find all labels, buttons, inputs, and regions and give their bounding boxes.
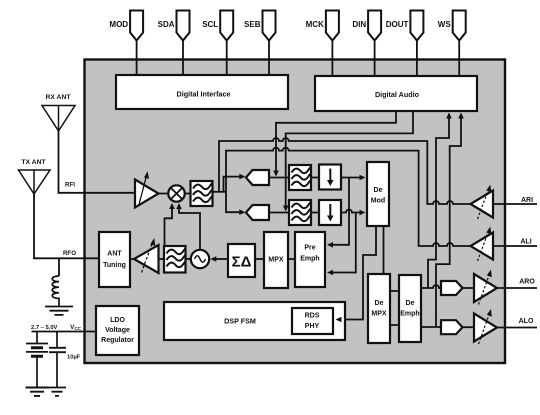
arrowhead into mixer (LO left) — [169, 203, 175, 209]
arrowhead into Digital Audio (2) — [458, 113, 464, 119]
wire: ADC2 to channel filter 2 — [269, 212, 289, 214]
arrowhead into ADC2 — [239, 209, 245, 215]
svg-text:ALI: ALI — [520, 239, 531, 246]
DAC right channel — [441, 281, 463, 295]
wire: TX ANT down to RFO — [34, 194, 99, 258]
arrowhead into RDS PHY — [336, 317, 342, 323]
wire: pin MOD lead into chip — [136, 39, 138, 76]
amplifier ALO output — [474, 314, 497, 342]
wire: ADC1 to channel filter 1 — [269, 177, 289, 179]
wire: decimator1 to demodulator — [341, 177, 364, 179]
amplifier ALI input — [471, 233, 494, 260]
svg-text:MOD: MOD — [109, 20, 128, 29]
filter (RF low-pass) — [191, 181, 213, 206]
svg-text:ARO: ARO — [519, 279, 535, 286]
wire: De MPX to De Emph (upper) — [390, 290, 399, 292]
wire: DAC2 to ALO amp — [463, 326, 475, 328]
wire: DeMod to De MPX — [383, 226, 385, 274]
wire: MPX to sigma-delta — [255, 258, 264, 260]
wire: filter1 to decimator1 — [311, 177, 319, 179]
wire: pin DIN lead into chip — [374, 39, 376, 76]
svg-text:MPX: MPX — [268, 257, 284, 264]
filter (channel select I) — [289, 165, 311, 190]
de-multiplex block (De MPX) — [368, 274, 390, 343]
ground (battery) — [26, 388, 49, 396]
de-emphasis block (De Emph) — [399, 275, 421, 342]
svg-text:PHY: PHY — [305, 323, 320, 330]
pin SEB — [263, 11, 276, 41]
svg-text:SDA: SDA — [158, 20, 175, 29]
svg-text:De: De — [406, 300, 415, 307]
wire: De MPX to De Emph (lower) — [390, 324, 399, 326]
svg-text:ARI: ARI — [521, 197, 533, 204]
svg-text:Digital Interface: Digital Interface — [177, 90, 231, 99]
amplifier LNA (RX) — [135, 180, 159, 208]
DSP FSM block — [164, 302, 345, 340]
wire: oscillator to TX filter — [186, 258, 192, 260]
svg-text:De: De — [374, 187, 383, 194]
svg-text:DIN: DIN — [352, 20, 366, 29]
wire: ALO pin line — [497, 327, 537, 329]
svg-text:SEB: SEB — [244, 20, 261, 29]
svg-text:2.7 – 5.0V: 2.7 – 5.0V — [31, 325, 58, 331]
wire: ARI pin line — [493, 203, 537, 205]
svg-text:RDS: RDS — [305, 313, 320, 320]
arrowhead into mixer (LO right) — [176, 203, 182, 209]
svg-text:MPX: MPX — [371, 311, 387, 318]
pin DOUT — [410, 11, 423, 41]
ADC I-channel — [246, 170, 269, 185]
battery (supply) — [36, 332, 38, 344]
wire: pin SCL lead into chip — [226, 39, 228, 76]
wire: De Emph to DAC1 (hop at x=436) — [421, 285, 441, 288]
PA gain arrow (dashed) — [142, 243, 153, 273]
wire: mixer LO left leg to TX filter top — [165, 206, 173, 246]
wire: ARO pin line — [497, 287, 537, 289]
pin WS — [453, 11, 466, 41]
wire: DeMod to RDS PHY — [338, 226, 376, 320]
wire: DAC2 node up to Digital Audio — [436, 114, 461, 327]
svg-text:DSP FSM: DSP FSM — [224, 317, 256, 326]
svg-text:ANT: ANT — [107, 251, 122, 258]
svg-text:Regulator: Regulator — [101, 337, 134, 344]
capacitor C1 10uF — [56, 332, 58, 348]
wire: Q-signal bus from filter junction to ALI line — [226, 148, 471, 246]
antenna RX ANT — [42, 106, 75, 132]
MPX block — [264, 232, 288, 288]
wire: De Emph to DAC2 — [421, 326, 441, 328]
arrowhead into Digital Audio (1) — [446, 113, 452, 119]
wire: mixer to RF filter — [185, 193, 191, 195]
svg-text:ΣΔ: ΣΔ — [232, 254, 252, 271]
svg-text:Tuning: Tuning — [103, 262, 126, 269]
wire: LNA to mixer — [159, 193, 169, 195]
arrowhead into DeMod (Q) — [360, 210, 366, 216]
wire: Pre Emph to MPX — [288, 258, 295, 260]
arrowhead into Pre Emph (upper) — [327, 242, 333, 248]
wire: Digital Audio to Q-row control (drop at x=285.7) — [286, 111, 413, 206]
wire: decimator2 to demodulator (hop at x=349) — [341, 210, 364, 213]
pin MOD — [130, 11, 143, 41]
svg-text:DOUT: DOUT — [386, 20, 409, 29]
wire: Q-row junction down to Pre Emph — [329, 213, 356, 273]
wire: oscillator to mixer LO right leg — [179, 206, 200, 250]
wire: sigma-delta to oscillator — [212, 258, 228, 260]
RDS PHY block — [292, 308, 333, 334]
svg-text:VCC: VCC — [70, 324, 82, 331]
amplifier ARI input — [471, 191, 494, 218]
wire: RFI input to LNA — [59, 131, 136, 193]
arrowhead into Pre Emph (lower) — [327, 270, 333, 276]
svg-text:TX ANT: TX ANT — [21, 159, 46, 166]
svg-text:MCK: MCK — [306, 20, 324, 29]
ground (inductor) — [45, 307, 73, 315]
wire: I-signal bus from filter junction to ARI line — [219, 138, 471, 204]
wire: DAC1 node up to Digital Audio — [428, 114, 449, 288]
svg-text:LDO: LDO — [110, 317, 125, 324]
wire: filter junction up to ADC1 input — [224, 177, 244, 192]
svg-text:WS: WS — [438, 20, 452, 29]
arrowhead into oscillator — [210, 256, 216, 262]
wire: Vcc supply rail into LDO — [32, 331, 97, 333]
wire: RF filter output junction — [213, 191, 227, 193]
svg-text:ALO: ALO — [519, 318, 534, 325]
svg-text:Emph: Emph — [400, 311, 419, 318]
svg-text:Mod: Mod — [371, 198, 385, 205]
wire: Digital Audio to I-row control (drop at x=276) — [276, 111, 396, 171]
ANT tuning block — [99, 232, 130, 287]
wire: pin SEB lead into chip — [268, 39, 270, 76]
wire: ALI pin line — [493, 245, 537, 247]
wire: inductor top lead — [58, 258, 60, 276]
digital audio block — [315, 76, 477, 111]
chip body (IC boundary) — [85, 60, 506, 364]
amplifier PA (TX) — [134, 245, 159, 273]
svg-text:Emph: Emph — [300, 256, 319, 263]
svg-text:De: De — [375, 300, 384, 307]
svg-text:RX ANT: RX ANT — [45, 94, 71, 101]
inductor L1 (RFO choke) — [52, 276, 59, 306]
svg-text:Digital Audio: Digital Audio — [375, 90, 420, 99]
svg-text:RFO: RFO — [63, 250, 76, 257]
ground (capacitor) — [48, 388, 66, 396]
svg-text:Voltage: Voltage — [105, 327, 130, 334]
wire: filter2 to decimator2 — [311, 212, 319, 214]
pin SDA — [177, 11, 190, 41]
arrowhead onto Q-row wire — [283, 206, 289, 212]
DAC left channel — [441, 320, 463, 334]
LDO voltage regulator block — [96, 306, 139, 355]
digital interface block — [116, 75, 288, 109]
wire: DAC1 to ARO amp — [463, 287, 475, 289]
filter (TX low-pass) — [164, 246, 186, 273]
wire: ANT tuning to PA — [130, 258, 134, 260]
arrowhead into ADC1 — [239, 174, 245, 180]
wire: pin DOUT lead into chip — [416, 39, 418, 76]
ADC Q-channel — [246, 205, 269, 220]
wire: PA to TX filter — [159, 258, 165, 260]
mixer — [168, 185, 184, 201]
svg-text:10µF: 10µF — [67, 355, 81, 361]
amplifier ARO output — [474, 274, 497, 302]
antenna TX ANT — [19, 170, 51, 194]
pin DIN — [368, 11, 381, 41]
pin MCK — [326, 11, 339, 41]
wire: I-row junction down to Pre Emph — [329, 178, 349, 245]
demodulator U-DeMod — [367, 162, 389, 226]
svg-text:SCL: SCL — [202, 20, 218, 29]
pre-emphasis block — [295, 232, 325, 287]
sigma-delta modulator — [228, 244, 255, 277]
wire: pin SDA lead into chip — [182, 39, 184, 76]
svg-text:RFI: RFI — [65, 182, 75, 189]
oscillator (DCO) — [191, 250, 209, 268]
arrowhead into DeMod (I) — [360, 175, 366, 181]
decimator 1 (downsample) — [319, 165, 341, 190]
wire: pin MCK lead into chip — [331, 39, 333, 76]
wire: pin WS lead into chip — [458, 39, 460, 76]
pin SCL — [220, 11, 233, 41]
filter (channel select Q) — [289, 200, 311, 225]
svg-text:Pre: Pre — [304, 245, 315, 252]
arrowhead onto I-row wire — [273, 171, 279, 177]
decimator 2 (downsample) — [319, 200, 341, 225]
LNA gain arrow — [139, 177, 146, 205]
